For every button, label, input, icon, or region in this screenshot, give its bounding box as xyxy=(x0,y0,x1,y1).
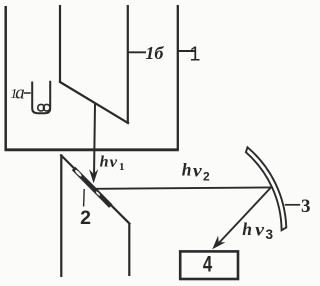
chamber inner wall (nozzle left) xyxy=(59,5,61,82)
lower chamber left wall xyxy=(60,155,62,278)
svg-text:ν: ν xyxy=(193,160,202,180)
svg-text:3: 3 xyxy=(266,227,274,242)
leader dash from label 1a to crucible xyxy=(24,92,31,94)
tick for label 1б xyxy=(128,51,146,53)
svg-text:ν: ν xyxy=(110,154,118,171)
arrowhead of hv3 xyxy=(212,236,225,250)
chamber 1 bottom wall xyxy=(5,148,179,151)
chamber 1 left wall xyxy=(4,6,7,151)
chamber 1 right wall xyxy=(177,5,179,150)
svg-text:3: 3 xyxy=(301,196,311,217)
arrowhead of hv1 xyxy=(89,169,98,183)
svg-text:1: 1 xyxy=(119,161,125,173)
detector box 4 xyxy=(180,251,238,279)
plate 2 (thick slanted mirror plate) xyxy=(74,168,111,206)
lower chamber right wall xyxy=(128,223,130,276)
concave mirror 3 (curved band) xyxy=(246,147,286,230)
beam hv2 line xyxy=(96,187,272,188)
plate 2 highlight oval 2 xyxy=(95,191,100,197)
svg-text:а: а xyxy=(15,82,25,103)
oven crucible 1a (U-shape) xyxy=(32,81,50,114)
svg-text:ν: ν xyxy=(255,220,264,240)
svg-text:h: h xyxy=(242,219,252,239)
nozzle diagonal wall xyxy=(59,82,129,124)
svg-text:1: 1 xyxy=(189,44,200,66)
svg-text:1б: 1б xyxy=(145,43,164,63)
plate 2 highlight oval 1 xyxy=(74,169,82,177)
svg-text:4: 4 xyxy=(203,251,213,276)
tick for label 1 xyxy=(179,50,196,52)
svg-text:h: h xyxy=(182,160,192,180)
beam hv3 line xyxy=(217,187,272,245)
lower chamber slanted wall xyxy=(60,155,130,225)
svg-text:2: 2 xyxy=(203,169,210,183)
leader line from label 2 to plate xyxy=(83,189,86,207)
diaphragm 1б line xyxy=(127,5,129,124)
svg-text:h: h xyxy=(100,153,109,170)
heater coil loop right xyxy=(43,104,50,111)
svg-text:2: 2 xyxy=(80,207,91,229)
tick for label 3 xyxy=(285,204,300,206)
beam hv1 arrow shaft xyxy=(94,104,95,176)
heater coil loop left xyxy=(38,104,45,111)
